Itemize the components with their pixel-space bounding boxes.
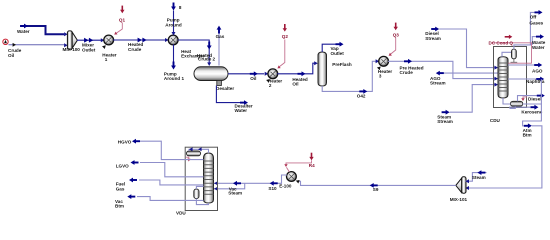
stream Vac Steam (into VDU) (214, 181, 245, 191)
svg-text:Stream: Stream (437, 119, 453, 124)
energy stream DC Cond Q (492, 35, 532, 64)
svg-text:Crude 2: Crude 2 (198, 57, 216, 62)
energy hook VDU condenser duty (186, 157, 191, 161)
connection arrowhead Water into MIX-100 (64, 32, 68, 36)
svg-text:Btm: Btm (115, 204, 124, 209)
column PreFlash (318, 52, 327, 86)
stream Atm Btm (465, 79, 542, 190)
svg-text:Steam: Steam (228, 191, 242, 196)
stream Diesel (product) (518, 93, 545, 101)
energy stream Q2 (276, 24, 287, 70)
stream Off Gases (530, 10, 542, 45)
svg-text:Btm: Btm (523, 132, 532, 137)
feed icon Crude Oil (red circle) (3, 39, 8, 44)
stream Vac Btm (127, 194, 203, 200)
stream Crude Oil (9, 44, 65, 46)
vessel VDU bottom pot (194, 189, 199, 199)
svg-text:1: 1 (105, 57, 108, 62)
energy stream Q1 (113, 6, 124, 36)
label arrow Heater 3 (377, 65, 382, 70)
wire condenser offgas riser (514, 45, 531, 49)
cooler U E-100 (287, 172, 297, 182)
mixer MIX-101 (mirrored) (456, 177, 466, 193)
svg-text:S10: S10 (268, 186, 277, 191)
vessel CDU bottoms drum (511, 101, 523, 106)
svg-text:CDU: CDU (490, 118, 501, 123)
svg-text:Desalter: Desalter (216, 86, 234, 91)
wire VDU overhead (189, 147, 209, 153)
heater U Heater 3 (379, 56, 389, 66)
svg-text:Q2: Q2 (282, 34, 289, 39)
vessel Desalter (194, 67, 228, 86)
svg-text:Q3: Q3 (393, 33, 400, 38)
energy stream Q3 (388, 23, 398, 58)
stream Heated Crude 2 (HX to Desalter) (178, 40, 212, 66)
mixer MIX-100 (67, 31, 77, 49)
vessel VDU condenser drum (187, 151, 201, 156)
svg-text:Q1: Q1 (119, 18, 126, 23)
stream S9 (MIX-101 outlet to E-100) (295, 179, 456, 188)
svg-text:Water: Water (235, 108, 248, 113)
stream Heated Oil (Heater 2 to PreFlash) (277, 61, 318, 76)
wire column bottoms to drum (503, 98, 511, 104)
energy stream R4 (284, 153, 313, 172)
heater U Heater 2 (268, 69, 278, 79)
svg-text:Steam: Steam (472, 175, 486, 180)
svg-text:LGVO: LGVO (116, 164, 129, 169)
stream Oil (desalter to Heater 2) (228, 73, 264, 75)
subflowsheet boundary CDU (494, 47, 527, 108)
bold arrow Water (20, 24, 28, 29)
stream S10 (E-100 outlet) (214, 175, 287, 186)
stream Pump Around 1 (outlet down) (171, 44, 176, 69)
svg-text:Stream: Stream (425, 36, 441, 41)
svg-text:8: 8 (179, 5, 182, 10)
svg-text:Oil: Oil (8, 53, 14, 58)
arrowhead Crude Oil start (13, 43, 16, 47)
vessel CDU condenser drum (512, 49, 517, 59)
connection arrowhead into Heater 1 (101, 38, 105, 42)
svg-text:HGVO: HGVO (118, 140, 132, 145)
svg-text:Off: Off (530, 15, 537, 20)
svg-text:Gas: Gas (216, 34, 225, 39)
svg-text:VDU: VDU (176, 211, 186, 216)
svg-text:DC Cond Q: DC Cond Q (489, 40, 514, 45)
svg-text:2: 2 (269, 83, 272, 88)
stream Vap Outlet (322, 42, 343, 52)
stream Fuel Gas (129, 178, 204, 185)
label arrow Heater 1 (102, 44, 107, 49)
svg-text:Gases: Gases (529, 20, 543, 25)
stream Heated Crude (113, 39, 169, 41)
stream Pump Around (inlet from top) (171, 3, 176, 36)
stream HGVO (132, 139, 204, 160)
condenser stand line (511, 59, 518, 62)
heat exchanger U Heat Exchanger (168, 35, 178, 45)
column CDU overhead vapour line (502, 52, 512, 57)
column CDU main tower (498, 57, 508, 98)
svg-text:Outlet: Outlet (331, 51, 345, 56)
stream Steam Stream (into CDU) (442, 83, 498, 115)
wire VDU pot bottom connector (196, 199, 208, 205)
stream Naphtha (product) (508, 77, 544, 82)
double bold arrows Mixer Outlet (84, 38, 88, 43)
svg-text:Crude: Crude (400, 70, 414, 75)
stream LGVO (131, 160, 204, 177)
heater U Heater 1 (104, 35, 114, 45)
svg-text:Around 1: Around 1 (164, 76, 185, 81)
svg-text:Diesel: Diesel (528, 97, 542, 102)
svg-text:Oil: Oil (292, 82, 298, 87)
svg-text:Water: Water (17, 29, 30, 34)
double bold arrows Heated Crude (138, 38, 142, 43)
wire drum drain (510, 106, 516, 108)
stream AGO Stream (out of CDU to left) (436, 71, 498, 76)
svg-text:MIX-101: MIX-101 (450, 197, 468, 202)
stream AGO (product) (508, 63, 542, 68)
svg-text:MIX-100: MIX-100 (63, 47, 81, 52)
stream O42 (preflash bottoms) (322, 59, 379, 94)
svg-text:Oil: Oil (250, 76, 256, 81)
connection arrowhead into Heat Exchanger (165, 38, 169, 42)
wire VDU pot top connector (196, 186, 203, 189)
stream Water (thick feed line) (21, 26, 64, 34)
svg-text:O42: O42 (357, 94, 366, 99)
stream Mixer Outlet (77, 39, 105, 41)
stream Pre Heated Crude (388, 59, 498, 81)
stream Waste Water (532, 34, 544, 45)
connection arrowhead Crude Oil into MIX-100 (64, 43, 68, 47)
svg-text:Kerosene: Kerosene (521, 110, 542, 115)
svg-text:Around: Around (165, 23, 182, 28)
svg-text:R4: R4 (309, 163, 315, 168)
label arrow Heater 2 (266, 78, 271, 83)
energy hook reboiler duty (521, 97, 527, 101)
subflowsheet boundary VDU (185, 147, 217, 210)
svg-text:E-100: E-100 (279, 184, 292, 189)
stream Diesel Stream (into CDU) (431, 27, 498, 70)
svg-text:Gas: Gas (116, 186, 125, 191)
stream Desalter Water (216, 86, 248, 106)
svg-text:Outlet: Outlet (82, 48, 96, 53)
svg-text:Water: Water (532, 45, 545, 50)
stream Steam (into MIX-101) (465, 170, 486, 183)
stream Gas (desalter vapour) (217, 26, 222, 66)
svg-text:Naphtha: Naphtha (526, 79, 545, 84)
svg-text:S9: S9 (373, 187, 379, 192)
svg-text:Stream: Stream (430, 81, 446, 86)
stream Kerosene (product) (509, 105, 538, 110)
svg-text:Crude: Crude (128, 47, 142, 52)
svg-text:PreFlash: PreFlash (332, 62, 352, 67)
svg-text:3: 3 (379, 74, 382, 79)
column VDU main tower (204, 153, 214, 203)
svg-text:AGO: AGO (532, 68, 543, 73)
